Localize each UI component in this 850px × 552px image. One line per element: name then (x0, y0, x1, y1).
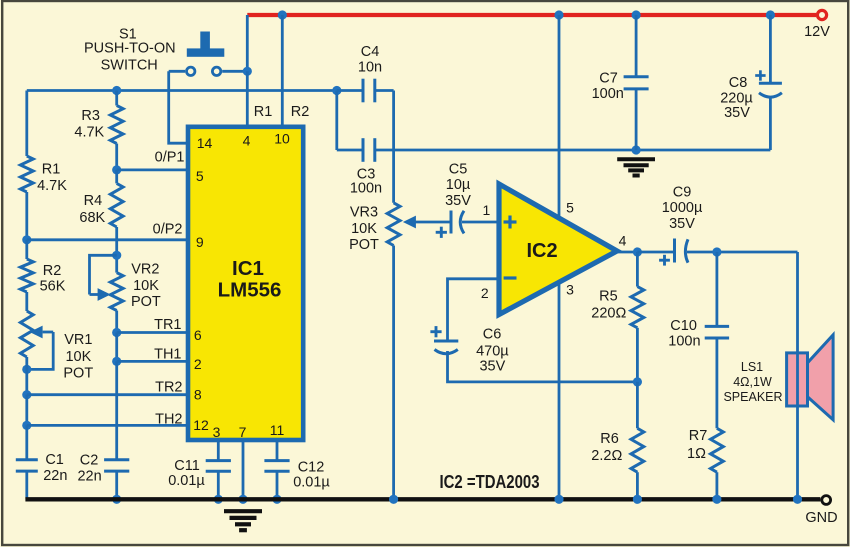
svg-text:C12: C12 (298, 460, 325, 476)
svg-text:35V: 35V (479, 359, 505, 375)
wire left rail upper (25, 91, 28, 157)
wire C6 to R5 bottom node (448, 351, 638, 382)
node TH2 junction (22, 421, 31, 430)
svg-text:R7: R7 (689, 428, 708, 444)
svg-text:TR2: TR2 (155, 380, 182, 396)
svg-text:R6: R6 (600, 431, 619, 447)
wire pin 10 reset (281, 15, 284, 126)
node pin3 ground junction (554, 495, 563, 504)
wire pin 7 to ground rail (242, 440, 245, 499)
svg-text:14: 14 (197, 135, 213, 151)
capacitor C1 (16, 458, 38, 461)
svg-text:R5: R5 (599, 288, 618, 304)
wire pin 5 to rail (558, 15, 561, 217)
wire 0/P2 pin 9 (27, 238, 187, 241)
wire R4 to VR2 (115, 227, 118, 273)
svg-text:TH2: TH2 (155, 411, 182, 427)
wire VR2 to TR1 node (115, 311, 118, 333)
svg-text:C6: C6 (483, 327, 502, 343)
wire left contact to pin 14 (169, 70, 185, 73)
svg-text:4.7K: 4.7K (74, 124, 104, 140)
resistor R2 (20, 259, 33, 292)
wire speaker to ground rail (796, 406, 799, 499)
plus input mark (504, 220, 517, 223)
svg-text:3: 3 (566, 282, 574, 298)
resistor R7 (711, 428, 724, 472)
wire output to R5 (636, 252, 639, 287)
capacitor C2 (104, 458, 129, 461)
svg-text:4: 4 (243, 133, 251, 149)
node rail C7 junction (632, 10, 641, 19)
wire C8 to ground row (769, 96, 772, 150)
svg-text:SPEAKER: SPEAKER (723, 390, 782, 404)
node TR2 junction (22, 390, 31, 399)
svg-text:LM556: LM556 (218, 279, 282, 302)
wire pin 3 to ground rail (558, 284, 561, 500)
wire TH1 node down to C2 (115, 361, 118, 459)
svg-text:4: 4 (619, 233, 627, 249)
svg-text:R3: R3 (81, 108, 100, 124)
wire R6 to ground rail (636, 472, 639, 499)
svg-text:6: 6 (194, 327, 202, 343)
ground symbol main (224, 509, 262, 513)
wire output pin 4 (613, 251, 637, 254)
resistor R5 (631, 287, 644, 328)
svg-text:VR2: VR2 (131, 262, 159, 278)
wire C7 to ground row (635, 89, 638, 150)
svg-text:R1: R1 (254, 104, 273, 120)
svg-text:2.2Ω: 2.2Ω (591, 448, 622, 464)
svg-text:C4: C4 (361, 44, 380, 60)
op-amp IC2 TDA2003 (499, 184, 617, 315)
wire TH2 pin 12 (27, 424, 187, 427)
svg-text:10K: 10K (65, 349, 91, 365)
svg-text:1Ω: 1Ω (687, 446, 706, 462)
svg-text:0/P2: 0/P2 (153, 222, 183, 238)
svg-text:12V: 12V (804, 24, 830, 40)
speaker LS1 horn (808, 335, 834, 420)
svg-text:220µ: 220µ (720, 90, 753, 106)
svg-text:3: 3 (213, 424, 221, 440)
capacitor C11 (206, 459, 231, 462)
svg-text:C7: C7 (599, 70, 618, 86)
svg-text:5: 5 (566, 200, 574, 216)
svg-text:35V: 35V (669, 216, 695, 232)
svg-text:C2: C2 (80, 453, 99, 469)
capacitor C12 (264, 459, 289, 462)
svg-text:10n: 10n (358, 59, 382, 75)
wire C10 to R7 (716, 338, 719, 428)
node C11 ground junction (214, 495, 223, 504)
svg-text:0/P1: 0/P1 (155, 150, 185, 166)
svg-text:10: 10 (274, 131, 290, 147)
svg-text:C11: C11 (174, 458, 200, 474)
wire pin 2 loop (448, 279, 498, 341)
svg-text:0.01µ: 0.01µ (168, 473, 205, 489)
wire TR2 node to TH2 node (25, 395, 28, 426)
wire TR1 pin 6 (117, 331, 187, 334)
svg-text:4Ω,1W: 4Ω,1W (733, 375, 772, 389)
svg-text:POT: POT (63, 366, 93, 382)
node ground row C7 junction (632, 145, 641, 154)
svg-text:POT: POT (349, 237, 379, 253)
svg-text:5: 5 (196, 168, 204, 184)
node output junction (633, 247, 642, 256)
svg-text:0.01µ: 0.01µ (293, 475, 330, 491)
wire bus to R3 (115, 91, 118, 106)
svg-text:100n: 100n (668, 334, 700, 350)
wire C5 to pin 1 (462, 221, 497, 224)
node pin7 ground junction (238, 495, 247, 504)
svg-text:R4: R4 (84, 193, 103, 209)
wire C1 to ground rail (25, 471, 28, 499)
node 0/P1 junction (112, 165, 121, 174)
svg-text:12: 12 (193, 417, 209, 433)
resistor R6 (631, 428, 644, 472)
svg-text:35V: 35V (724, 105, 750, 121)
wire ground rail (25, 497, 820, 501)
wire C3 row left (337, 149, 362, 152)
capacitor C7 (624, 75, 649, 78)
node C4 branch junction (332, 86, 341, 95)
wire C10 branch (716, 252, 719, 326)
wire TH2 node to C1 (25, 425, 28, 459)
wire R3 to 0/P1 node (115, 144, 118, 170)
IC U1 LM556 body (188, 127, 303, 440)
wire TR1 node to TH1 node (115, 333, 118, 362)
resistor R1 (20, 156, 33, 192)
node C12 ground junction (272, 495, 281, 504)
switch S1 right contact (212, 67, 220, 75)
capacitor C4 (362, 79, 365, 103)
wire right contact to junction (222, 70, 247, 73)
node rail pin10 junction (278, 10, 287, 19)
resistor R3 (110, 106, 123, 144)
node VR2 wiper junction (112, 251, 121, 260)
svg-text:C5: C5 (449, 162, 468, 178)
wire node to R6 (636, 382, 639, 428)
wire C4 right (375, 89, 394, 92)
svg-text:7: 7 (239, 424, 247, 440)
resistor R4 (110, 183, 123, 227)
capacitor C10 (705, 325, 729, 328)
terminal GND (822, 496, 831, 505)
ground symbol row (617, 157, 655, 161)
wire TR2 pin 8 (27, 393, 187, 396)
svg-text:SWITCH: SWITCH (101, 57, 158, 73)
node R7 ground junction (712, 495, 721, 504)
node rail C8 junction (766, 10, 775, 19)
svg-text:IC2 =TDA2003: IC2 =TDA2003 (440, 472, 540, 492)
svg-text:R2: R2 (291, 104, 310, 120)
svg-text:56K: 56K (40, 279, 66, 295)
svg-text:4.7K: 4.7K (37, 178, 67, 194)
node speaker ground junction (793, 495, 802, 504)
svg-text:10K: 10K (133, 278, 159, 294)
wire C9 to speaker branch (687, 251, 798, 254)
svg-text:22n: 22n (77, 469, 101, 485)
node VR3 ground junction (389, 495, 398, 504)
capacitor C5 (450, 211, 453, 234)
wire R5 to node (636, 328, 639, 382)
wire speaker drop (796, 252, 799, 353)
wire C12 to ground rail (276, 471, 279, 499)
svg-text:8: 8 (194, 387, 202, 403)
wire R1 to 0/P2 node (25, 192, 28, 240)
svg-text:IC2: IC2 (526, 240, 557, 262)
switch S1 left contact (187, 67, 195, 75)
svg-text:2: 2 (481, 285, 489, 301)
wire 12V power rail (247, 13, 816, 17)
wire pin 11 to C12 (276, 440, 279, 461)
node C2 ground junction (112, 495, 121, 504)
terminal 12V (817, 10, 826, 19)
node 0/P2 left junction (22, 235, 31, 244)
svg-text:9: 9 (196, 234, 204, 250)
capacitor C6 (434, 340, 458, 343)
wire pin 4 reset (246, 71, 249, 126)
svg-text:1000µ: 1000µ (662, 200, 703, 216)
svg-text:C9: C9 (673, 184, 692, 200)
node switch junction (243, 67, 252, 76)
svg-text:LS1: LS1 (741, 360, 763, 374)
svg-text:C10: C10 (670, 318, 697, 334)
minus input mark (504, 276, 517, 279)
wire to R2 (25, 240, 28, 259)
svg-text:VR3: VR3 (350, 205, 378, 221)
wire rail to switch (246, 15, 249, 71)
wire C4 branch down to C3 row (335, 91, 338, 151)
svg-text:10K: 10K (351, 221, 377, 237)
node rail pin5 junction (554, 10, 563, 19)
wire output to C9 (637, 251, 673, 254)
svg-text:R1: R1 (42, 162, 61, 178)
svg-text:10µ: 10µ (446, 177, 471, 193)
potentiometer VR2 (110, 273, 123, 311)
svg-text:C1: C1 (45, 452, 64, 468)
svg-text:100n: 100n (592, 86, 624, 102)
node TH1 junction (112, 357, 121, 366)
svg-text:PUSH-TO-ON: PUSH-TO-ON (84, 41, 176, 57)
svg-text:220Ω: 220Ω (591, 306, 626, 322)
wire R2 to VR1 (25, 292, 28, 311)
svg-text:TH1: TH1 (154, 347, 181, 363)
potentiometer VR3 (387, 203, 400, 246)
svg-text:IC1: IC1 (232, 257, 264, 280)
node C10 branch junction (712, 247, 721, 256)
capacitor C3 (362, 138, 365, 162)
svg-text:TR1: TR1 (154, 317, 181, 333)
svg-text:1: 1 (483, 202, 491, 218)
svg-text:POT: POT (131, 294, 161, 310)
svg-text:GND: GND (805, 510, 837, 526)
svg-text:68K: 68K (79, 210, 105, 226)
wire ground row (375, 149, 771, 152)
wire VR3 to ground rail (392, 246, 395, 500)
svg-text:R2: R2 (43, 263, 62, 279)
node R6 ground junction (633, 495, 642, 504)
wire TH1 pin 2 (117, 360, 187, 363)
capacitor C8 (759, 82, 782, 85)
svg-text:470µ: 470µ (476, 344, 509, 360)
node R5 R6 junction (633, 377, 642, 386)
wire rail to C7 (635, 15, 638, 77)
wire 0/P1 node to R4 (115, 170, 118, 184)
svg-text:C8: C8 (729, 75, 748, 91)
svg-text:2: 2 (194, 356, 202, 372)
node TR1 junction (112, 328, 121, 337)
potentiometer VR1 (20, 311, 33, 357)
wire top bus (27, 89, 337, 92)
wire C2 to ground rail (115, 471, 118, 499)
wire C11 to ground rail (217, 471, 220, 499)
wire through speaker (796, 353, 799, 406)
capacitor C9 (673, 239, 676, 263)
svg-text:22n: 22n (43, 468, 67, 484)
wire pin 3 to C11 (217, 440, 220, 461)
node VR1 wiper junction (22, 365, 31, 374)
speaker LS1 body (787, 353, 808, 406)
wire C4 to VR3 (392, 91, 395, 203)
node R3 top junction (112, 86, 121, 95)
svg-text:100n: 100n (350, 180, 382, 196)
wire VR1 to TR2 node (25, 357, 28, 395)
svg-text:35V: 35V (445, 193, 471, 209)
wire C4 branch (337, 89, 362, 92)
svg-text:VR1: VR1 (64, 332, 92, 348)
wire 0/P1 pin 5 (117, 168, 187, 171)
wire rail to C8 (769, 15, 772, 83)
svg-text:11: 11 (270, 422, 285, 438)
switch S1 plunger (200, 32, 210, 49)
wire R7 to ground rail (716, 472, 719, 499)
